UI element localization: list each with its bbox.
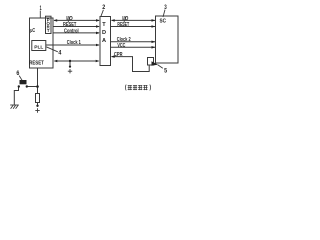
arrow CPR left — [111, 55, 115, 58]
wire VCC TDA-SC — [111, 46, 155, 48]
caption (prior art) in Japanese, simulated glyph strokes — [125, 85, 150, 91]
TDA letters — [102, 22, 106, 44]
microcontroller block uC — [30, 18, 54, 68]
wire switch left to ground — [14, 88, 18, 106]
wire switch to reset node — [28, 86, 38, 88]
PLL block — [32, 41, 46, 51]
terminal dot resistor — [36, 105, 38, 107]
arrow I/O2 left — [111, 19, 115, 22]
svg-text:5: 5 — [164, 67, 167, 74]
svg-text:T: T — [47, 28, 50, 33]
arrow Clock2 right — [152, 41, 156, 44]
plus symbol supply — [68, 69, 72, 73]
svg-text:RESET: RESET — [29, 61, 44, 67]
wire Clock1 PLL-TDA — [46, 44, 99, 46]
switch S1 cap — [20, 80, 27, 84]
card presence contact wedge — [152, 61, 159, 66]
wire supply tap stub — [69, 61, 71, 67]
PORT letters — [47, 18, 51, 33]
svg-text:4: 4 — [58, 49, 61, 56]
svg-text:Clock 1: Clock 1 — [67, 40, 81, 46]
interface chip U2 TDA — [100, 17, 111, 66]
svg-text:D: D — [102, 30, 106, 36]
wire Control uC-TDA — [54, 32, 100, 34]
svg-text:RESET: RESET — [117, 22, 129, 28]
svg-text:T: T — [102, 22, 106, 28]
junction dot supply — [69, 60, 71, 62]
switch S1 contacts — [18, 85, 20, 87]
bus slash right — [124, 17, 126, 23]
wire Clock2 TDA-SC — [111, 41, 155, 43]
wire supply V+ uC-TDA — [55, 60, 99, 62]
wire RESET uC-TDA — [54, 26, 100, 28]
smart card block SC — [156, 16, 179, 63]
reset wire from uC — [14, 68, 37, 105]
junction dot reset node — [36, 85, 39, 88]
card presence switch 5 box — [148, 58, 154, 66]
svg-text:SC: SC — [160, 19, 167, 25]
resistor R1 — [36, 94, 40, 103]
svg-text:Control: Control — [64, 29, 79, 35]
svg-text:RESET: RESET — [63, 22, 77, 28]
svg-text:CPR: CPR — [114, 52, 123, 58]
arrow RESET2 right — [152, 25, 156, 28]
wire CPR TDA to switch — [112, 57, 150, 72]
wire I/O uC-TDA — [54, 19, 99, 21]
wire RESET TDA-SC — [111, 26, 155, 28]
arrow I/O left — [54, 19, 58, 22]
arrow Control right — [96, 32, 100, 35]
svg-text:A: A — [102, 38, 106, 44]
wire I/O TDA-SC — [112, 19, 156, 21]
svg-text:µC: µC — [30, 28, 35, 34]
arrow I/O right — [96, 19, 100, 22]
svg-text:PLL: PLL — [34, 44, 43, 50]
arrow Clock1 right — [96, 44, 100, 47]
arrow I/O2 right — [152, 19, 156, 22]
bus slash left — [68, 17, 70, 23]
arrow VCC right — [152, 46, 156, 49]
terminal dot supply — [69, 66, 71, 68]
ground — [10, 105, 19, 109]
svg-text:VCC: VCC — [117, 43, 125, 49]
wire resistor to plus — [37, 103, 39, 106]
port block PORT — [46, 16, 52, 33]
arrow supply left — [54, 60, 58, 63]
arrow RESET right — [96, 25, 100, 28]
arrow supply right — [96, 60, 100, 63]
plus symbol resistor — [35, 108, 39, 112]
